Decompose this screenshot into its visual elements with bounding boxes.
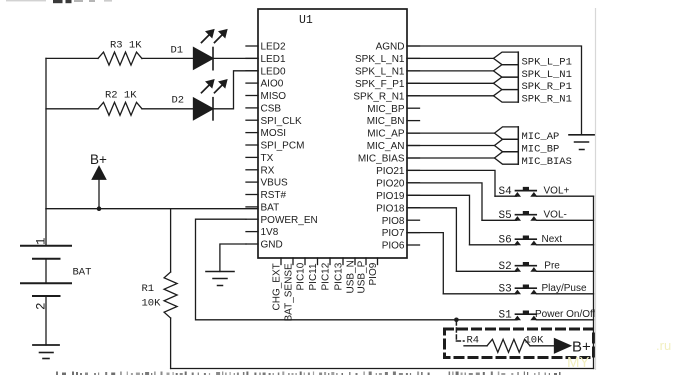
svg-text:MIC_BP: MIC_BP bbox=[522, 143, 560, 155]
pin VBUS (U1 left) bbox=[246, 181, 258, 183]
switch S2 bbox=[456, 270, 516, 272]
wire S3 to right rail bbox=[537, 293, 594, 295]
pin PIO18 (U1 right) bbox=[407, 207, 420, 209]
svg-text:CHG_EXT: CHG_EXT bbox=[272, 263, 283, 310]
pin SPK_L_N1 (U1 right) bbox=[407, 57, 420, 59]
pin MIC_AN (U1 right) bbox=[407, 145, 420, 147]
node B+ junction dot bbox=[97, 206, 102, 211]
resistor R1 bbox=[164, 272, 177, 318]
svg-text:SPI_PCM: SPI_PCM bbox=[261, 141, 305, 152]
svg-text:MIC_BP: MIC_BP bbox=[367, 104, 405, 115]
battery BAT bbox=[21, 246, 71, 296]
pin LED0 (U1 left) bbox=[246, 70, 258, 72]
svg-text:SPK_R_N1: SPK_R_N1 bbox=[353, 91, 405, 102]
LED D1 bbox=[194, 48, 214, 70]
ground at AGND bbox=[569, 135, 595, 150]
pin LED2 (U1 left) bbox=[246, 45, 258, 47]
svg-text:1: 1 bbox=[35, 237, 49, 245]
svg-text:Power On/Off: Power On/Off bbox=[535, 309, 596, 320]
pin PIO19 (U1 right) bbox=[407, 194, 420, 196]
ground at U1 GND bbox=[206, 272, 234, 286]
pin USB_P (U1 bottom) bbox=[365, 258, 367, 265]
svg-text:BAT: BAT bbox=[261, 203, 280, 214]
svg-text:SPK_L_N1: SPK_L_N1 bbox=[522, 69, 572, 81]
svg-text:D2: D2 bbox=[172, 95, 185, 107]
pin MIC_BP (U1 right) bbox=[407, 107, 420, 109]
D1 emission arrows bbox=[202, 30, 228, 43]
wire POWER_EN to S1 rail bbox=[196, 219, 518, 320]
pin AGND (U1 right) bbox=[407, 45, 420, 47]
svg-text:MY: MY bbox=[567, 354, 590, 371]
resistor R2 bbox=[98, 102, 142, 115]
svg-text:AIO0: AIO0 bbox=[261, 79, 284, 90]
pin PIO20 (U1 right) bbox=[407, 182, 420, 184]
svg-text:MIC_AP: MIC_AP bbox=[522, 131, 560, 143]
power arrow B+ bbox=[555, 339, 571, 353]
svg-text:SPK_L_N1: SPK_L_N1 bbox=[355, 54, 405, 65]
svg-text:CSB: CSB bbox=[261, 104, 282, 115]
pin PIC11 (U1 bottom) bbox=[317, 258, 319, 265]
pin SPI_CLK (U1 left) bbox=[246, 119, 258, 121]
svg-text:BAT: BAT bbox=[73, 267, 92, 279]
wire SPK_R_P1 bbox=[407, 82, 494, 84]
wire B+ rail to BAT pin bbox=[46, 208, 258, 210]
pin LED1 (U1 left) bbox=[246, 57, 258, 59]
svg-text:SPK_L_N1: SPK_L_N1 bbox=[355, 67, 405, 78]
svg-text:VOL-: VOL- bbox=[544, 210, 567, 221]
svg-text:S4: S4 bbox=[499, 186, 513, 198]
wire R4 to B+ arrow bbox=[530, 345, 555, 347]
connector SPK_R_N1 bbox=[494, 90, 519, 103]
svg-text:SPK_R_N1: SPK_R_N1 bbox=[522, 94, 572, 106]
svg-text:MISO: MISO bbox=[261, 91, 287, 102]
wire D2 up to LED0 pin bbox=[213, 71, 258, 109]
wire left rail to R3 bbox=[46, 57, 98, 59]
svg-text:MIC_BN: MIC_BN bbox=[367, 116, 405, 127]
svg-text:Pre: Pre bbox=[544, 261, 560, 272]
wire B+ rail to battery bbox=[45, 209, 47, 246]
svg-text:10K: 10K bbox=[142, 298, 162, 310]
connector MIC_AP bbox=[495, 127, 519, 139]
svg-text:PIC13: PIC13 bbox=[334, 262, 345, 290]
node junction S1/R4 bbox=[454, 318, 459, 323]
pin PIO9 (U1 bottom) bbox=[377, 258, 379, 265]
svg-text:D1: D1 bbox=[171, 45, 184, 57]
wire S1 to right rail bbox=[537, 319, 594, 321]
pin CSB (U1 left) bbox=[246, 107, 258, 109]
pin MISO (U1 left) bbox=[246, 95, 258, 97]
svg-text:MIC_AN: MIC_AN bbox=[367, 141, 405, 152]
wire SPK_L_N1 bbox=[407, 70, 494, 72]
dashed wire junction to R4 bbox=[456, 321, 464, 341]
svg-text:R1: R1 bbox=[142, 283, 155, 295]
svg-text:PIO19: PIO19 bbox=[376, 191, 405, 202]
pin CHG_EXT (U1 bottom) bbox=[280, 258, 282, 265]
wire AGND to ground bbox=[407, 46, 582, 134]
wire to R4 bbox=[464, 345, 487, 347]
pin 1V8 (U1 left) bbox=[246, 231, 258, 233]
wire GND pin to ground bbox=[220, 244, 246, 272]
svg-text:B+: B+ bbox=[90, 152, 107, 167]
svg-text:MIC_BIAS: MIC_BIAS bbox=[522, 156, 572, 168]
svg-text:USB_P: USB_P bbox=[357, 260, 368, 293]
svg-text:1V8: 1V8 bbox=[261, 227, 279, 238]
svg-text:BAT_SENSE: BAT_SENSE bbox=[284, 263, 295, 321]
wire D1 to LED1 pin bbox=[213, 57, 258, 59]
wire MIC_BP bbox=[407, 145, 495, 147]
wire SPK_L_P1 bbox=[407, 57, 494, 59]
svg-text:RX: RX bbox=[261, 165, 275, 176]
pin PIC12 (U1 bottom) bbox=[329, 258, 331, 265]
svg-text:U1: U1 bbox=[299, 14, 313, 27]
svg-text:PIC10: PIC10 bbox=[296, 262, 307, 290]
svg-text:PIO9: PIO9 bbox=[368, 262, 379, 285]
wire SPK_R_N1 bbox=[407, 95, 494, 97]
svg-text:SPK_L_P1: SPK_L_P1 bbox=[522, 56, 572, 68]
pin MIC_AP (U1 right) bbox=[407, 132, 420, 134]
ground below battery bbox=[33, 345, 59, 359]
svg-text:TX: TX bbox=[261, 153, 274, 164]
pin MOSI (U1 left) bbox=[246, 132, 258, 134]
wire left rail bbox=[45, 58, 47, 208]
switch S6 bbox=[470, 244, 517, 246]
wire MIC_AP bbox=[407, 132, 495, 134]
switch S3 bbox=[443, 293, 516, 295]
right rail bbox=[593, 196, 595, 368]
dashed option box bbox=[445, 329, 594, 358]
wire PIO7 to switch row bbox=[407, 233, 443, 294]
pin MIC_BN (U1 right) bbox=[407, 120, 420, 122]
svg-text:POWER_EN: POWER_EN bbox=[261, 215, 318, 226]
pin TX (U1 left) bbox=[246, 156, 258, 158]
svg-text:MIC_BIAS: MIC_BIAS bbox=[358, 154, 405, 165]
pin SPK_R_N1 (U1 right) bbox=[407, 95, 420, 97]
pin GND (U1 left) bbox=[246, 243, 258, 245]
svg-text:SPK_R_P1: SPK_R_P1 bbox=[522, 81, 572, 93]
wire PIO21 to switch row bbox=[407, 170, 495, 196]
svg-text:S2: S2 bbox=[499, 261, 512, 273]
switch S5 bbox=[482, 219, 517, 221]
svg-text:MOSI: MOSI bbox=[261, 128, 287, 139]
svg-text:PIO6: PIO6 bbox=[382, 241, 405, 252]
pin RX (U1 left) bbox=[246, 169, 258, 171]
wire MIC_BIAS bbox=[407, 157, 495, 159]
svg-text:MIC_AP: MIC_AP bbox=[367, 129, 405, 140]
wire B+ rail down to R1 bbox=[170, 209, 172, 272]
svg-text:AGND: AGND bbox=[376, 42, 405, 53]
connector block right edge (MIC) bbox=[517, 127, 519, 164]
wire left rail to R2 bbox=[46, 108, 98, 110]
bottom rail bbox=[171, 368, 594, 370]
svg-text:10K: 10K bbox=[525, 335, 545, 347]
svg-text:S6: S6 bbox=[499, 234, 512, 246]
svg-text:PIO20: PIO20 bbox=[376, 178, 405, 189]
wire R1 to bottom rail bbox=[170, 318, 172, 369]
svg-text:VBUS: VBUS bbox=[261, 178, 289, 189]
svg-text:R2 1K: R2 1K bbox=[105, 90, 137, 102]
pin SPI_PCM (U1 left) bbox=[246, 144, 258, 146]
pin PIO8 (U1 right) bbox=[407, 219, 420, 221]
svg-text:S5: S5 bbox=[499, 210, 512, 222]
svg-text:GND: GND bbox=[261, 240, 283, 251]
pin MIC_BIAS (U1 right) bbox=[407, 157, 420, 159]
faint page border line bbox=[595, 8, 597, 370]
svg-text:B+: B+ bbox=[572, 339, 591, 356]
connector block right edge (SPK) bbox=[517, 52, 519, 102]
resistor R3 bbox=[98, 52, 142, 65]
svg-text:R3 1K: R3 1K bbox=[110, 40, 142, 52]
pin RST# (U1 left) bbox=[246, 194, 258, 196]
cut-off text top edge bbox=[6, 0, 112, 3]
svg-text:Play/Puse: Play/Puse bbox=[542, 283, 587, 294]
svg-text:VOL+: VOL+ bbox=[544, 186, 570, 197]
pin PIO7 (U1 right) bbox=[407, 232, 420, 234]
cut-off text bottom edge bbox=[56, 372, 561, 375]
pin SPK_F_P1 (U1 right) bbox=[407, 82, 420, 84]
svg-text:SPK_F_P1: SPK_F_P1 bbox=[355, 79, 405, 90]
svg-text:Next: Next bbox=[542, 234, 563, 245]
svg-text:S3: S3 bbox=[499, 283, 512, 295]
svg-text:R4: R4 bbox=[467, 335, 480, 347]
svg-text:SPI_CLK: SPI_CLK bbox=[261, 116, 302, 127]
svg-text:PIO18: PIO18 bbox=[376, 203, 405, 214]
svg-text:S1: S1 bbox=[499, 309, 513, 321]
connector MIC_BP bbox=[495, 139, 519, 151]
svg-text:RST#: RST# bbox=[261, 190, 287, 201]
wire PIO18 to switch row bbox=[407, 208, 456, 271]
svg-text:USB_N: USB_N bbox=[346, 260, 357, 293]
switch S1 bbox=[515, 311, 537, 320]
power flag B+ bbox=[92, 167, 105, 209]
pin AIO0 (U1 left) bbox=[246, 82, 258, 84]
wire R3 to D1 bbox=[142, 57, 194, 59]
pin PIO6 (U1 right) bbox=[407, 244, 420, 246]
op-amp U1 bbox=[258, 9, 407, 258]
wire PIO20 to switch row bbox=[407, 183, 482, 220]
connector SPK_L_P1 bbox=[494, 52, 519, 65]
pin PIO21 (U1 right) bbox=[407, 169, 420, 171]
pin PIC13 (U1 bottom) bbox=[342, 258, 344, 265]
pin SPK_L_N1 (U1 right) bbox=[407, 70, 420, 72]
resistor R4 bbox=[487, 339, 530, 352]
wire S5 to right rail bbox=[537, 219, 594, 221]
svg-text:PIO21: PIO21 bbox=[376, 166, 405, 177]
wire S6 to right rail bbox=[537, 244, 594, 246]
pin POWER_EN (U1 left) bbox=[246, 218, 258, 220]
wire battery to ground bbox=[45, 296, 47, 345]
pin USB_N (U1 bottom) bbox=[354, 258, 356, 265]
connector SPK_R_P1 bbox=[494, 77, 519, 90]
svg-text:LED1: LED1 bbox=[261, 54, 286, 65]
svg-text:PIO7: PIO7 bbox=[382, 228, 405, 239]
svg-text:.ru: .ru bbox=[656, 338, 671, 353]
pin PIC10 (U1 bottom) bbox=[304, 258, 306, 265]
wire R2 to D2 bbox=[142, 108, 194, 110]
watermark bbox=[567, 338, 671, 371]
LED D2 bbox=[194, 98, 214, 120]
svg-text:LED2: LED2 bbox=[261, 42, 286, 53]
connector MIC_BIAS bbox=[495, 152, 519, 164]
wire PIO19 to switch row bbox=[407, 195, 470, 245]
switch S4 bbox=[495, 195, 517, 197]
svg-text:PIC11: PIC11 bbox=[308, 263, 319, 290]
pin BAT (U1 left) bbox=[246, 206, 258, 208]
svg-text:LED0: LED0 bbox=[261, 66, 286, 77]
connector SPK_L_N1 bbox=[494, 65, 519, 78]
wire S2 to right rail bbox=[537, 270, 594, 272]
wire S4 to right rail bbox=[537, 195, 594, 197]
svg-text:PIC12: PIC12 bbox=[321, 262, 332, 290]
pin BAT_SENSE (U1 bottom) bbox=[292, 258, 294, 265]
D2 emission arrows bbox=[202, 80, 228, 93]
svg-text:PIO8: PIO8 bbox=[382, 216, 405, 227]
